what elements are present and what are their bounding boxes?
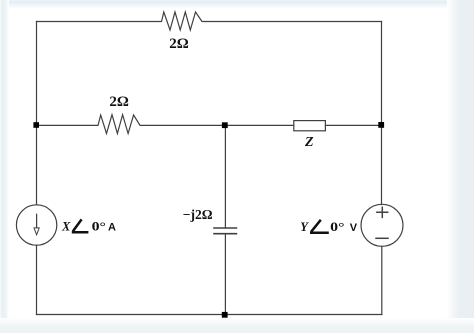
- svg-text:A: A: [108, 221, 116, 233]
- svg-text:X: X: [61, 219, 71, 233]
- svg-text:V: V: [350, 222, 358, 234]
- svg-text:2Ω: 2Ω: [109, 94, 129, 110]
- svg-text:Z: Z: [304, 135, 314, 150]
- svg-text:2Ω: 2Ω: [169, 36, 189, 52]
- svg-text:Y: Y: [300, 220, 309, 234]
- svg-text:0°: 0°: [92, 219, 106, 233]
- svg-text:−j2Ω: −j2Ω: [183, 207, 213, 222]
- svg-text:0°: 0°: [330, 220, 344, 234]
